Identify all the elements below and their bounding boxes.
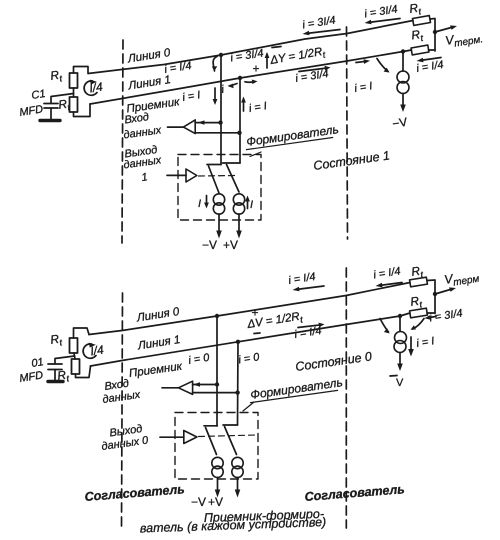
svg-text:ватель (в каждом устройстве): ватель (в каждом устройстве) xyxy=(140,515,327,535)
wire vertical 2 (line1 to driver) xyxy=(239,78,241,163)
svg-text:i = 3I/4: i = 3I/4 xyxy=(295,68,330,85)
svg-text:−V: −V xyxy=(191,495,206,509)
switch bar 1 bottom xyxy=(204,425,217,427)
resistor Rt6 xyxy=(72,359,80,374)
arrow i=I up beside wire2 xyxy=(243,100,245,111)
driver buffer triangle xyxy=(186,169,197,182)
ground xyxy=(40,119,60,122)
node on line 0 bottom xyxy=(215,314,219,318)
dashed boundary left (top circuit) xyxy=(122,40,123,243)
resistor Rt1 (top left terminator) xyxy=(70,73,78,88)
current source (bottom right) xyxy=(395,332,407,344)
node vterm bottom xyxy=(433,292,437,296)
svg-text:I/4: I/4 xyxy=(89,342,105,358)
svg-text:i = 0: i = 0 xyxy=(238,351,262,366)
svg-text:i: i xyxy=(221,84,226,96)
arrow left on line1 xyxy=(230,84,238,86)
current source right (bottom box) xyxy=(232,457,243,468)
svg-text:Согласователь: Согласователь xyxy=(304,482,405,504)
label Formirovatel (bottom) underlined xyxy=(248,375,343,402)
svg-text:I: I xyxy=(250,199,253,211)
wire to -V (top box) xyxy=(218,214,220,233)
current source (top right) xyxy=(397,71,409,83)
resistor Rt2 (left terminator lower) xyxy=(70,97,78,112)
minus under dV xyxy=(254,332,260,335)
svg-text:данных 0: данных 0 xyxy=(101,434,150,453)
linkage dashed xyxy=(199,175,236,178)
svg-text:Vтерм.: Vтерм. xyxy=(444,28,484,51)
dashed boundary right (top circuit) xyxy=(347,27,348,239)
ground bottom xyxy=(48,380,63,383)
svg-text:Rt: Rt xyxy=(49,67,63,85)
svg-text:Линия 0: Линия 0 xyxy=(126,47,172,66)
wire top bracket to line 0 bottom xyxy=(74,328,90,338)
driver box dashed (top) xyxy=(178,155,261,221)
curved arrow left into source (bottom right) xyxy=(380,319,389,333)
wire driver input bottom xyxy=(160,436,184,438)
svg-text:i = I: i = I xyxy=(416,335,436,350)
arrow Vterm bottom xyxy=(435,289,452,294)
wire bottom bracket to line 1 bottom xyxy=(76,366,91,378)
resistor Rt7 (bottom right upper) xyxy=(410,277,428,287)
svg-text:i = I/4: i = I/4 xyxy=(373,265,402,281)
driver buffer triangle bottom xyxy=(184,431,197,444)
wire receiver input bottom bottom circuit xyxy=(193,392,238,394)
arrow right on line1 (toward node) xyxy=(356,61,366,62)
wire line 1 (top circuit) xyxy=(90,50,412,104)
wire rt4 to node xyxy=(429,49,436,51)
linkage dashed bottom xyxy=(199,435,257,437)
svg-text:V: V xyxy=(396,377,404,389)
label -V stacked (bottom right) xyxy=(390,375,397,378)
wire rt3 to vterm node xyxy=(430,19,435,52)
wire line 0 (top) xyxy=(88,21,413,74)
receiver amp (top) xyxy=(183,120,195,134)
switch arm 2 xyxy=(227,165,240,193)
label Formirovatel (top) underlined xyxy=(244,122,339,149)
node on line 0 xyxy=(219,53,223,57)
switch arm 1 xyxy=(209,166,220,193)
svg-text:−V: −V xyxy=(202,238,217,252)
wire between resistors xyxy=(73,88,75,97)
wire driver input xyxy=(167,174,186,176)
wire capacitor tap bottom xyxy=(55,356,75,364)
label i=3I/4 + left arrow (bottom right) xyxy=(428,317,436,318)
leader to box xyxy=(250,152,261,157)
arrow i down beside wire1 xyxy=(214,88,216,101)
svg-text:+: + xyxy=(253,62,260,76)
wire receiver input top with arrow xyxy=(195,122,220,124)
wire vertical 1 (line0 to driver) xyxy=(220,55,222,165)
svg-text:Согласователь: Согласователь xyxy=(84,482,185,504)
svg-text:+V: +V xyxy=(208,495,223,509)
wire to +V (bottom box) xyxy=(237,478,239,493)
switch bar 1 xyxy=(207,164,221,166)
svg-text:i = 3I/4: i = 3I/4 xyxy=(302,14,337,31)
curved arrow i=3I/4 (bottom right) xyxy=(413,319,425,330)
svg-text:i = 3I/4: i = 3I/4 xyxy=(429,307,464,324)
wire to -V (bottom box) xyxy=(217,478,219,493)
switch arm 2 bottom xyxy=(225,427,237,455)
node input top bottom xyxy=(215,382,219,386)
leader to box bottom xyxy=(243,402,254,411)
capacitor C2 xyxy=(48,363,62,365)
switch arm 1 bottom xyxy=(206,428,217,455)
wire node to source bottom xyxy=(399,316,401,332)
wire vertical 1 bottom xyxy=(216,316,218,426)
svg-text:I/4: I/4 xyxy=(88,79,104,95)
node vterm xyxy=(433,30,437,34)
svg-text:Rt: Rt xyxy=(408,0,422,18)
node on line 1 bottom xyxy=(236,340,240,344)
svg-text:Формирователь: Формирователь xyxy=(245,122,339,149)
wire receiver input bottom xyxy=(195,132,239,134)
svg-text:Линия 1: Линия 1 xyxy=(136,334,181,353)
svg-text:C1: C1 xyxy=(31,88,47,102)
curved arrow from node down xyxy=(213,57,217,72)
svg-text:i = I: i = I xyxy=(182,89,202,104)
svg-text:MFD: MFD xyxy=(19,369,44,385)
wire receiver input top bottom circuit xyxy=(193,384,217,386)
wire receiver output bottom xyxy=(162,387,178,389)
node line1 current source xyxy=(401,49,405,53)
arrow right under line1 (i=3I/4) xyxy=(299,68,327,72)
node input bottom xyxy=(237,131,241,135)
svg-text:Формирователь: Формирователь xyxy=(249,375,343,402)
current source left (top box) xyxy=(213,194,224,205)
node input bottom bottom xyxy=(235,390,239,394)
svg-text:i = 3I/4: i = 3I/4 xyxy=(364,3,399,20)
node line1 source bottom xyxy=(398,314,402,318)
label i=I + down arrow (bottom right) xyxy=(410,337,412,352)
svg-text:Vтерм: Vтерм xyxy=(443,268,480,290)
svg-text:i = I: i = I xyxy=(354,80,374,95)
loop arrow I/4 xyxy=(84,81,97,95)
arrow right on line1 xyxy=(245,81,255,83)
wire bottom bracket to line 1 xyxy=(74,104,91,117)
wire receiver output xyxy=(168,126,184,128)
resistor Rt4 (right lower) xyxy=(411,45,429,55)
svg-text:+V: +V xyxy=(223,238,238,252)
wire vertical 2 bottom xyxy=(237,342,240,425)
resistor Rt8 (bottom right lower) xyxy=(410,308,428,318)
svg-text:Линия 1: Линия 1 xyxy=(127,74,172,93)
svg-text:MFD: MFD xyxy=(19,103,44,119)
wire rt7 to node xyxy=(427,280,435,314)
minus over dY xyxy=(272,47,281,48)
svg-text:Состояние 0: Состояние 0 xyxy=(294,349,372,374)
svg-text:i = I/4: i = I/4 xyxy=(164,60,193,76)
svg-text:данных: данных xyxy=(123,124,163,141)
svg-text:Состояние 1: Состояние 1 xyxy=(312,148,390,173)
svg-text:Приемник: Приемник xyxy=(128,361,183,380)
resistor Rt5 (bottom left terminator) xyxy=(70,338,78,353)
current source left (bottom box) xyxy=(212,457,223,468)
svg-text:−V: −V xyxy=(391,115,408,131)
wire source to -V bottom xyxy=(399,353,401,368)
wire node to source xyxy=(402,52,404,72)
svg-text:i = I: i = I xyxy=(248,100,268,115)
switch bar 2 bottom xyxy=(223,424,238,426)
capacitor C1 xyxy=(44,103,58,105)
wire line 0 (bottom circuit) xyxy=(89,283,410,335)
resistor Rt3 (top right) xyxy=(413,16,431,26)
loop arrow I/4 bottom xyxy=(83,344,96,358)
svg-text:Rt: Rt xyxy=(410,27,424,45)
dashed boundary right (bottom circuit) xyxy=(345,268,347,528)
arrow dY up xyxy=(266,54,268,68)
svg-text:I: I xyxy=(198,198,201,210)
wire top bracket to line 0 xyxy=(74,67,89,74)
svg-text:Rt: Rt xyxy=(49,331,63,349)
dashed boundary left (bottom circuit) xyxy=(122,293,123,527)
node input top xyxy=(218,120,222,124)
arrow left + label i=I/4 (under Rt4) xyxy=(420,58,441,61)
svg-text:Вход: Вход xyxy=(124,111,150,126)
wire to +V (top box) xyxy=(238,214,240,233)
wire capacitor tap xyxy=(51,94,74,104)
arrow right + label i=I/4 under line1 bottom xyxy=(298,325,321,328)
switch bar 2 xyxy=(223,162,241,164)
svg-text:1: 1 xyxy=(141,171,149,184)
curved arrow into current source (top right) xyxy=(377,59,388,72)
current source right (top box) xyxy=(233,194,244,205)
wire line 1 (bottom circuit) xyxy=(91,313,411,366)
svg-text:i = I/4: i = I/4 xyxy=(288,271,317,287)
wire rt8 to node xyxy=(427,312,435,314)
arrow Vterm xyxy=(435,27,453,32)
node on line 1 xyxy=(238,76,242,80)
svg-text:01: 01 xyxy=(31,356,45,370)
wire between resistors bottom xyxy=(74,353,75,359)
driver box dashed (bottom) xyxy=(175,413,258,480)
wire source to -V xyxy=(402,94,404,109)
svg-text:i = 0: i = 0 xyxy=(188,352,212,367)
receiver amp (bottom) xyxy=(178,381,192,394)
